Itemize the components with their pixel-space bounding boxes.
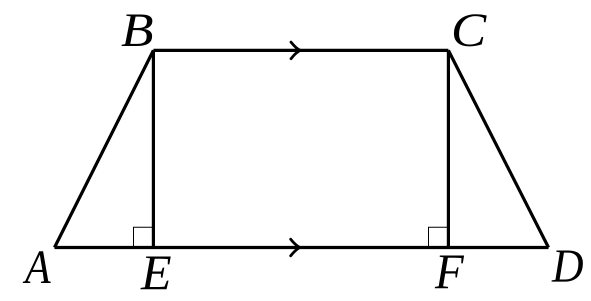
arrow on AD (parallel mark) [291,239,300,256]
node D label [552,243,584,291]
wire CF (altitude from C) [447,50,450,247]
node E label [141,247,172,297]
right angle mark at F [429,227,449,247]
right angle mark at E [134,227,154,247]
wire CD (right leg of trapezoid) [448,50,548,247]
node B label [121,7,154,55]
node F label [435,246,464,296]
wire AD (bottom side) [55,246,549,249]
wire BE (altitude from B) [152,50,155,247]
node A label [25,244,51,292]
arrow on BC (parallel mark) [291,42,300,59]
wire AB (left leg of trapezoid) [55,50,154,247]
wire BC (top side) [153,49,448,52]
node C label [451,7,486,55]
